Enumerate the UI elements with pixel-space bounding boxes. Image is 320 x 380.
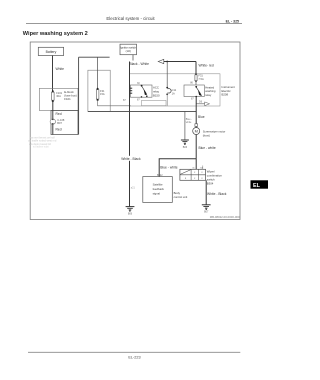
- svg-text:B150: B150: [153, 93, 160, 97]
- svg-text:86: 86: [190, 82, 193, 85]
- svg-text:(front): (front): [203, 134, 210, 138]
- svg-text:87: 87: [137, 98, 140, 101]
- wire label White-Black: [121, 156, 142, 161]
- battery B1: [38, 47, 63, 55]
- E-block fuse box: [39, 88, 78, 110]
- connector C-108: [50, 118, 65, 125]
- ignition rail wire: [159, 61, 197, 63]
- svg-text:87: 87: [123, 99, 126, 102]
- svg-text:Battery: Battery: [46, 50, 57, 54]
- wiper switch S2: [180, 169, 206, 180]
- ground G3: [202, 205, 211, 214]
- wire fuse to relay: [195, 81, 197, 85]
- header rule: [26, 22, 242, 24]
- svg-text:(1/2): (1/2): [126, 50, 131, 53]
- fuse F31 7.5A: [190, 73, 204, 84]
- svg-text:feedback: feedback: [153, 187, 165, 191]
- svg-text:MB-08022-00-0000-000: MB-08022-00-0000-000: [210, 215, 240, 219]
- svg-text:B06: B06: [128, 212, 133, 215]
- svg-text:B06: B06: [183, 146, 188, 149]
- wire battery to fuse box: [52, 56, 54, 92]
- ground G2: [181, 140, 189, 149]
- svg-text:B07: B07: [204, 211, 209, 214]
- svg-text:30A: 30A: [56, 94, 61, 98]
- relay outer box: [130, 74, 221, 106]
- branch to satellite: [159, 159, 196, 177]
- svg-text:Satellite: Satellite: [153, 183, 163, 187]
- svg-text:Black - White: Black - White: [130, 62, 150, 66]
- E-block label: [64, 90, 77, 101]
- body control unit label: [174, 191, 188, 199]
- relay K1 left: [130, 82, 152, 101]
- fuse F101: [52, 90, 63, 102]
- svg-text:F101: F101: [64, 97, 71, 101]
- svg-text:1A: 1A: [172, 91, 175, 95]
- bleed-through smudge: [28, 135, 57, 148]
- relay K1 label: [153, 86, 160, 98]
- relay K2 label: [205, 85, 216, 97]
- top rail wire: [79, 56, 110, 58]
- svg-text:White: White: [56, 67, 65, 71]
- svg-text:white: white: [186, 121, 192, 124]
- svg-text:White- red: White- red: [199, 63, 214, 67]
- ignition switch S1: [120, 44, 137, 55]
- wire through connector: [52, 101, 54, 134]
- wire middle leg: [97, 57, 99, 88]
- svg-text:B304: B304: [207, 181, 214, 185]
- svg-text:Blue - white: Blue - white: [160, 166, 177, 170]
- wire into switch: [195, 159, 197, 170]
- auxiliary box under relay K1: [142, 100, 167, 105]
- svg-text:control unit: control unit: [174, 195, 188, 199]
- long horizontal wire: [88, 110, 196, 112]
- connector C11: [166, 61, 176, 106]
- svg-text:x: x: [201, 172, 203, 174]
- ground drop wire: [184, 111, 186, 139]
- ground G1: [126, 207, 135, 216]
- svg-text:Red: Red: [56, 112, 62, 116]
- wire to relay box: [98, 100, 131, 106]
- switch label: [207, 169, 223, 185]
- svg-text:Ignition switch: Ignition switch: [120, 47, 136, 50]
- svg-text:Red: Red: [56, 128, 62, 132]
- svg-text:B07: B07: [57, 121, 62, 125]
- svg-text:Wiper washing system 2: Wiper washing system 2: [23, 31, 88, 37]
- svg-text:signal: signal: [153, 191, 161, 195]
- svg-text:B208: B208: [222, 93, 229, 97]
- arrow out D6: [196, 101, 210, 106]
- svg-text:relay: relay: [205, 93, 212, 97]
- svg-text:x: x: [194, 172, 196, 174]
- motor branch wire: [195, 97, 197, 159]
- motor label: [203, 129, 226, 137]
- svg-text:C11: C11: [172, 88, 177, 92]
- pin label: [186, 118, 192, 124]
- connector box below fuse box: [51, 111, 78, 135]
- svg-text:EL-223: EL-223: [128, 355, 140, 359]
- svg-text:15A: 15A: [100, 92, 105, 96]
- svg-text:o: o: [185, 178, 187, 180]
- svg-text:a21: a21: [131, 187, 136, 190]
- svg-text:Electrical system - circuit: Electrical system - circuit: [106, 16, 155, 21]
- relay K2 right: [184, 85, 204, 101]
- svg-text:sd ladtme sdat: sd ladtme sdat: [33, 146, 49, 149]
- svg-text:White - Black: White - Black: [207, 192, 227, 196]
- fuse F31a: [96, 88, 105, 101]
- footer rule: [28, 351, 240, 353]
- wire switch to ground: [205, 180, 207, 204]
- box around fuse F31a: [88, 70, 110, 111]
- svg-text:Screenwiper motor: Screenwiper motor: [203, 129, 226, 133]
- svg-text:White - Black: White - Black: [121, 157, 141, 161]
- main vertical wire left: [129, 62, 131, 207]
- motor M1: [193, 128, 200, 135]
- connector arrow A1: [158, 59, 164, 63]
- svg-text:Blue - white: Blue - white: [199, 146, 216, 150]
- wire left leg: [78, 57, 80, 134]
- svg-text:EL: EL: [253, 183, 261, 189]
- wire drop to F31: [195, 62, 197, 74]
- svg-text:Blue: Blue: [198, 115, 205, 119]
- connector on motor wire: [195, 124, 198, 127]
- wire ignition drop: [132, 55, 134, 61]
- svg-text:x: x: [194, 178, 196, 180]
- diagram frame: [30, 42, 240, 220]
- satellite box U1: [143, 177, 173, 203]
- svg-text:7.5A: 7.5A: [198, 77, 204, 81]
- EL tab: [251, 180, 269, 188]
- svg-text:M: M: [195, 129, 198, 134]
- svg-text:87: 87: [191, 98, 194, 101]
- svg-text:x: x: [201, 178, 203, 180]
- instrument block label: [222, 85, 235, 97]
- svg-text:D6: D6: [199, 101, 203, 104]
- svg-text:30: 30: [137, 82, 140, 85]
